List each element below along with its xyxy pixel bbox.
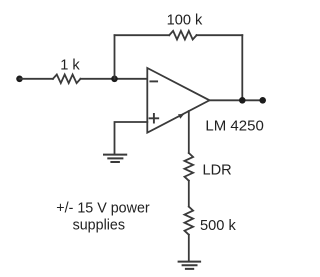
wire offset pin down from op-amp edge (188, 111, 190, 153)
op-amp minus input symbol (150, 80, 157, 82)
wire input to R1 (20, 78, 53, 80)
svg-text:LDR: LDR (202, 163, 231, 179)
resistor R2 100 k (169, 31, 196, 40)
resistor R1 1 k (53, 75, 81, 84)
wire LDR to R4 (188, 181, 190, 207)
node output terminal (259, 97, 266, 104)
wire op-amp output (210, 99, 263, 101)
svg-text:500 k: 500 k (200, 218, 236, 234)
node input terminal (16, 76, 23, 83)
svg-text:1 k: 1 k (60, 57, 80, 73)
op-amp plus input symbol (150, 114, 159, 123)
ground bottom (179, 262, 201, 269)
svg-text:100 k: 100 k (167, 12, 203, 28)
node feedback junction (111, 76, 118, 83)
svg-text:supplies: supplies (73, 218, 125, 234)
resistor R4 500 k (185, 207, 194, 235)
resistor R3 LDR (185, 153, 194, 181)
wire junction up to feedback rail (114, 35, 116, 79)
wire R1 to inverting input (81, 78, 148, 80)
wire non-inverting input to ground (115, 122, 148, 154)
svg-text:+/- 15 V power: +/- 15 V power (56, 201, 150, 217)
wire feedback down to output (241, 35, 243, 100)
op-amp U1 body (147, 68, 209, 133)
ground left (104, 155, 126, 162)
wire top rail left (115, 34, 170, 36)
arrowhead on op-amp edge (178, 112, 185, 119)
wire R4 to ground (188, 235, 190, 261)
node output feedback junction (239, 97, 246, 104)
svg-text:LM 4250: LM 4250 (205, 117, 263, 134)
wire top rail right (197, 34, 243, 36)
